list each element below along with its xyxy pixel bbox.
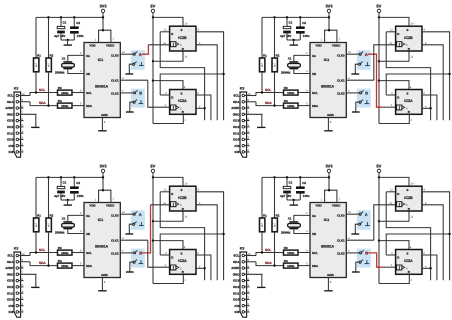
capacitor C2 (quadrant 2) (299, 17, 301, 26)
K3 pin 9 SDA (quadrant 2) (242, 101, 245, 104)
svg-text:4µ7 16V: 4µ7 16V (280, 34, 291, 38)
svg-text:VDD: VDD (316, 44, 322, 48)
K3 pin 10 SCL (quadrant 3) (16, 254, 19, 257)
svg-text:SDA: SDA (312, 264, 319, 268)
svg-text:CLK0: CLK0 (111, 213, 119, 217)
svg-text:IC2A: IC2A (404, 99, 413, 103)
wire IC2B Q pin 9 (quadrant 1) (196, 32, 224, 120)
wire jumper B ground option to ground (quadrant 2) (356, 102, 359, 111)
svg-text:25MHz: 25MHz (55, 230, 65, 234)
flip-flop IC2A (quadrant 4) (396, 250, 422, 275)
svg-text:C2: C2 (76, 21, 80, 25)
svg-text:S: S (407, 251, 409, 255)
wire 5V to IC2B S pin 10 (quadrant 1) (153, 17, 183, 26)
svg-text:IC2A: IC2A (178, 99, 187, 103)
svg-text:R2: R2 (276, 213, 280, 217)
K3 pin 5 IO12 (quadrant 3) (16, 286, 19, 289)
capacitor C1 (quadrant 2) (286, 17, 288, 26)
ground jumper B (quadrant 2) (352, 111, 360, 113)
svg-text:IO11: IO11 (7, 131, 14, 135)
jumper option highlight B (quadrant 2) (357, 89, 371, 108)
wire IC2B R pin 13 to 5V (quadrant 4) (379, 211, 409, 221)
svg-text:K3: K3 (14, 247, 19, 251)
flip-flop IC2A (quadrant 3) (170, 250, 196, 275)
svg-text:100Ω: 100Ω (61, 104, 69, 108)
capacitor C2 (quadrant 1) (73, 17, 75, 26)
svg-text:R4: R4 (58, 99, 62, 103)
svg-text:R1: R1 (37, 213, 41, 217)
wire IC2A Qbar to IC2B D feedback (quadrant 4) (386, 192, 430, 280)
ground K3 (quadrant 3) (31, 286, 39, 288)
svg-text:3V3: 3V3 (99, 163, 107, 168)
svg-text:A: A (139, 212, 142, 217)
capacitor C2 (quadrant 4) (299, 177, 301, 186)
solder jumper B (quadrant 2) (360, 92, 362, 94)
wire decoupling ground link (quadrant 3) (61, 199, 74, 201)
solder jumper A (quadrant 1) (133, 53, 135, 55)
wire jumper A ground option to ground (quadrant 4) (355, 224, 358, 233)
svg-text:C1: C1 (63, 181, 67, 185)
wire IC2A Qbar pin 6 (quadrant 3) (196, 267, 205, 269)
svg-text:R3: R3 (58, 246, 62, 250)
wire XA to crystal (quadrant 1) (68, 55, 84, 61)
svg-text:D: D (397, 95, 399, 99)
wire jumper B ground option to ground (quadrant 4) (356, 262, 359, 271)
svg-text:R2: R2 (276, 53, 280, 57)
svg-text:R1: R1 (263, 53, 267, 57)
solder jumper A ground option (quadrant 4) (359, 223, 361, 225)
jumper option highlight B (quadrant 3) (131, 249, 145, 268)
solder jumper B (quadrant 4) (360, 252, 362, 254)
wire to IC2A clock pin 3 (quadrant 2) (383, 106, 396, 108)
svg-text:X1: X1 (288, 57, 292, 61)
resistor R4 (quadrant 1) (58, 103, 73, 108)
wire selected clock path B to IC2B red (quadrant 3) (142, 205, 150, 253)
svg-text:4k7: 4k7 (35, 222, 38, 227)
wire IC2A S pin 4 to 5V (quadrant 2) (379, 81, 409, 90)
wire jumper B ground option to ground (quadrant 3) (130, 262, 133, 271)
svg-text:AREF: AREF (5, 106, 13, 110)
svg-text:S: S (407, 91, 409, 95)
wire 3V3 feed (quadrant 4) (328, 172, 330, 190)
jumper option highlight A (quadrant 1) (131, 50, 145, 70)
resistor R1 (quadrant 4) (261, 177, 263, 218)
svg-text:5V: 5V (376, 163, 381, 168)
K3 pin 3 IO10 (quadrant 4) (242, 298, 245, 301)
K3 pin 3 IO10 (quadrant 3) (16, 298, 19, 301)
svg-text:IO8: IO8 (235, 150, 240, 154)
svg-text:IO8: IO8 (235, 310, 240, 314)
wire 3V3 feed (quadrant 3) (102, 172, 104, 190)
svg-text:CLK1: CLK1 (337, 79, 345, 83)
solder jumper B (quadrant 1) (134, 92, 136, 94)
svg-text:R3: R3 (58, 86, 62, 90)
wire VDD/VDDO bracket (quadrant 3) (99, 190, 111, 202)
wire IC2B Q pin 9 (quadrant 2) (422, 32, 450, 120)
svg-text:SDA: SDA (312, 104, 319, 108)
resistor R2 (quadrant 2) (274, 17, 276, 58)
wire IC2B Q pin 9 (quadrant 3) (196, 192, 224, 280)
svg-text:SI5351A: SI5351A (95, 244, 109, 248)
svg-text:D: D (171, 32, 173, 36)
svg-text:C1: C1 (289, 21, 293, 25)
wire VDD/VDDO bracket (quadrant 2) (325, 30, 337, 42)
svg-text:S: S (407, 188, 409, 192)
ground IC1 (quadrant 3) (98, 290, 106, 292)
wire IC2A R pin 1 to 5V (quadrant 3) (153, 275, 183, 284)
K3 pin 1 IO8 (quadrant 2) (242, 151, 245, 154)
svg-text:IO13: IO13 (233, 119, 240, 123)
svg-text:R1: R1 (37, 53, 41, 57)
K3 pin 8 AREF (quadrant 2) (242, 107, 245, 110)
wire IC2A Q pin 5 (quadrant 2) (422, 95, 437, 120)
svg-text:IO8: IO8 (9, 150, 14, 154)
K3 pin 6 IO13 (quadrant 1) (16, 119, 19, 122)
svg-text:10: 10 (22, 253, 25, 256)
svg-text:GND: GND (101, 273, 107, 277)
wire VDD/VDDO bracket (quadrant 1) (99, 30, 111, 42)
svg-text:K3: K3 (14, 87, 19, 91)
wire IC1 GND pin 8 (quadrant 1) (101, 118, 103, 131)
solder jumper B ground option (quadrant 1) (133, 101, 135, 103)
wire IC2A Qbar to IC2B D feedback (quadrant 3) (160, 192, 204, 280)
svg-text:C2: C2 (76, 181, 80, 185)
IC U1 Si5351A clock generator IC1 (quadrant 2) (310, 43, 346, 118)
svg-text:SCL: SCL (7, 254, 13, 258)
wire XA to crystal (quadrant 2) (294, 55, 310, 61)
svg-text:100n: 100n (77, 34, 84, 38)
wire SDA net (quadrant 4) (256, 262, 284, 266)
svg-text:10: 10 (248, 253, 251, 256)
svg-text:SDA: SDA (265, 261, 272, 265)
wire decoupling ground link (quadrant 2) (287, 39, 300, 41)
wire K3 GND (quadrant 4) (261, 274, 263, 287)
IC U1 Si5351A clock generator IC1 (quadrant 4) (310, 203, 346, 278)
svg-text:SI5351A: SI5351A (95, 84, 109, 88)
svg-text:100Ω: 100Ω (287, 264, 295, 268)
wire IC1 CLK0 pin 10 stub (quadrant 3) (120, 213, 133, 215)
svg-text:IO9: IO9 (9, 144, 14, 148)
svg-text:D: D (171, 192, 173, 196)
flip-flop IC2A (quadrant 2) (396, 90, 422, 115)
K3 pin 10 SCL (quadrant 2) (242, 94, 245, 97)
wire 3V3 feed (quadrant 1) (102, 12, 104, 30)
wire IC2B R pin 13 to 5V (quadrant 2) (379, 51, 409, 61)
wire IC2A Qbar pin 6 (quadrant 4) (422, 267, 431, 269)
K3 pin 7 GND (quadrant 2) (242, 113, 245, 116)
svg-text:S: S (181, 28, 183, 32)
svg-text:IO12: IO12 (233, 285, 240, 289)
K3 pin 1 IO8 (quadrant 3) (16, 311, 19, 314)
svg-text:4µ7 16V: 4µ7 16V (280, 194, 291, 198)
wire 3V3 rail (quadrant 4) (262, 176, 329, 178)
svg-text:K3: K3 (240, 247, 245, 251)
resistor R2 (quadrant 1) (48, 17, 50, 58)
svg-text:XB: XB (312, 72, 316, 76)
svg-text:4µ7 16V: 4µ7 16V (54, 194, 65, 198)
K3 pin 10 SCL (quadrant 4) (242, 254, 245, 257)
jumper option highlight A (quadrant 3) (131, 210, 145, 230)
K3 pin 5 IO12 (quadrant 2) (242, 126, 245, 129)
svg-text:4k7: 4k7 (273, 62, 276, 67)
svg-text:IO8: IO8 (9, 310, 14, 314)
svg-text:AREF: AREF (5, 266, 13, 270)
svg-text:C: C (406, 204, 408, 207)
svg-text:VDDO: VDDO (332, 44, 341, 48)
svg-text:K3: K3 (240, 87, 245, 91)
solder jumper A (quadrant 3) (133, 213, 135, 215)
wire IC2A Qbar pin 6 (quadrant 2) (422, 107, 431, 109)
capacitor C1 (quadrant 4) (286, 177, 288, 186)
wire IC1 CLK0 pin 10 stub (quadrant 4) (346, 213, 359, 215)
svg-text:B: B (139, 91, 142, 96)
svg-text:IC2A: IC2A (404, 259, 413, 263)
resistor R4 (quadrant 4) (284, 263, 299, 268)
wire 5V vertical feed (quadrant 3) (152, 172, 154, 283)
svg-text:D: D (171, 95, 173, 99)
K3 pin 9 SDA (quadrant 1) (16, 101, 19, 104)
flip-flop IC2B (quadrant 3) (170, 186, 196, 211)
K3 pin 1 IO8 (quadrant 4) (242, 311, 245, 314)
wire IC1 GND pin 8 (quadrant 4) (327, 278, 329, 291)
IC U1 Si5351A clock generator IC1 (quadrant 3) (84, 203, 120, 278)
resistor R1 (quadrant 1) (35, 17, 37, 58)
resistor R3 (quadrant 2) (284, 90, 299, 95)
K3 pin 9 SDA (quadrant 4) (242, 261, 245, 264)
ground K3 (quadrant 2) (257, 126, 265, 128)
wire IC1 GND pin 8 (quadrant 2) (327, 118, 329, 131)
wire IC1 CLK1 pin 9 stub (quadrant 1) (120, 79, 148, 81)
wire IC2B Q to IC2A D feedback (quadrant 1) (160, 74, 223, 95)
wire jumper A ground option to ground (quadrant 3) (129, 224, 132, 233)
jumper option highlight B (quadrant 4) (357, 249, 371, 268)
jumper option highlight A (quadrant 4) (357, 210, 371, 230)
wire CLK1 to IC2A clock pin 3 (quadrant 1) (148, 80, 170, 107)
svg-text:SCL: SCL (39, 248, 45, 252)
svg-text:S: S (181, 188, 183, 192)
solder jumper A ground option (quadrant 1) (133, 63, 135, 65)
svg-text:C2: C2 (302, 181, 306, 185)
svg-text:GND: GND (327, 113, 333, 117)
K3 pin 10 SCL (quadrant 1) (16, 94, 19, 97)
svg-text:D: D (397, 32, 399, 36)
ground K3 (quadrant 1) (31, 126, 39, 128)
svg-text:R4: R4 (58, 259, 62, 263)
wire SDA net (quadrant 3) (30, 262, 58, 266)
wire VDD/VDDO bracket (quadrant 4) (325, 190, 337, 202)
wire SCL net (quadrant 3) (30, 253, 58, 256)
jumper option highlight B (quadrant 1) (131, 89, 145, 108)
ground IC1 (quadrant 1) (98, 130, 106, 132)
svg-text:XB: XB (86, 232, 90, 236)
svg-text:VDD: VDD (316, 204, 322, 208)
svg-text:C: C (180, 44, 182, 47)
svg-text:IO11: IO11 (7, 291, 14, 295)
K3 pin 7 GND (quadrant 4) (242, 273, 245, 276)
wire IC2B Qbar pin 8 (quadrant 3) (196, 205, 217, 280)
svg-text:SDA: SDA (86, 104, 93, 108)
svg-text:CLK1: CLK1 (111, 239, 119, 243)
svg-text:IC1: IC1 (324, 58, 330, 62)
svg-text:SDA: SDA (39, 261, 46, 265)
svg-text:GND: GND (101, 113, 107, 117)
wire IC2A D pin 2 stub (quadrant 3) (160, 254, 169, 256)
svg-text:SCL: SCL (312, 251, 318, 255)
wire to IC2A clock pin 3 (quadrant 4) (383, 266, 396, 268)
svg-text:C: C (180, 267, 182, 270)
svg-text:SI5351A: SI5351A (321, 244, 335, 248)
svg-text:S: S (181, 251, 183, 255)
K3 pin 2 IO9 (quadrant 1) (16, 144, 19, 147)
ground IC1 (quadrant 2) (324, 130, 332, 132)
K3 pin 2 IO9 (quadrant 4) (242, 304, 245, 307)
svg-text:X1: X1 (288, 217, 292, 221)
svg-text:R3: R3 (284, 86, 288, 90)
svg-text:CLK0: CLK0 (111, 53, 119, 57)
wire 3V3 rail (quadrant 1) (36, 16, 103, 18)
ground jumper A (quadrant 4) (351, 233, 359, 235)
K3 pin 5 IO12 (quadrant 1) (16, 126, 19, 129)
wire IC2A Q pin 5 (quadrant 4) (422, 255, 437, 280)
wire IC2A S pin 4 to 5V (quadrant 3) (153, 241, 183, 250)
svg-text:X1: X1 (62, 217, 66, 221)
svg-text:SCL: SCL (233, 254, 239, 258)
svg-text:SI5351A: SI5351A (321, 84, 335, 88)
svg-text:5V: 5V (150, 3, 155, 8)
svg-text:5V: 5V (376, 3, 381, 8)
svg-text:GND: GND (233, 112, 241, 116)
svg-text:SCL: SCL (312, 91, 318, 95)
svg-text:IC1: IC1 (98, 58, 104, 62)
svg-text:IO9: IO9 (235, 304, 240, 308)
wire crystal to XB (quadrant 3) (68, 229, 84, 233)
wire IC2B Q pin 9 (quadrant 4) (422, 192, 450, 280)
svg-text:AREF: AREF (231, 106, 239, 110)
K3 pin 1 IO8 (quadrant 1) (16, 151, 19, 154)
ground jumper A (quadrant 1) (125, 73, 133, 75)
wire IC2B D pin 12 stub (quadrant 3) (160, 191, 169, 193)
svg-text:10: 10 (22, 93, 25, 96)
svg-text:CLK0: CLK0 (337, 213, 345, 217)
svg-text:SDA: SDA (7, 260, 14, 264)
svg-text:IC2B: IC2B (404, 196, 413, 200)
svg-text:IC2A: IC2A (178, 259, 187, 263)
svg-text:100n: 100n (303, 194, 310, 198)
svg-text:IC1: IC1 (98, 218, 104, 222)
wire selected clock path A to IC2B red (quadrant 1) (142, 45, 149, 54)
svg-text:D: D (397, 192, 399, 196)
svg-text:IO11: IO11 (233, 131, 240, 135)
solder jumper B ground option (quadrant 3) (133, 261, 135, 263)
svg-text:R4: R4 (284, 259, 288, 263)
K3 pin 4 IO11 (quadrant 4) (242, 292, 245, 295)
wire K3 GND (quadrant 2) (261, 114, 263, 127)
svg-text:X1: X1 (62, 57, 66, 61)
flip-flop IC2B (quadrant 4) (396, 186, 422, 211)
wire decoupling ground link (quadrant 1) (61, 39, 74, 41)
svg-text:C: C (180, 204, 182, 207)
ground jumper B (quadrant 3) (126, 271, 134, 273)
svg-text:SDA: SDA (86, 264, 93, 268)
wire IC1 CLK2 pin 6 stub (quadrant 4) (346, 252, 359, 254)
ground jumper A (quadrant 3) (125, 233, 133, 235)
wire IC2A Qbar to IC2B D feedback (quadrant 2) (386, 32, 430, 120)
wire IC2B Q to IC2A D feedback (quadrant 4) (386, 234, 449, 255)
svg-text:VDD: VDD (90, 44, 96, 48)
svg-text:A: A (365, 52, 368, 57)
svg-text:5V: 5V (150, 163, 155, 168)
ground below C1 C2 (quadrant 3) (64, 204, 72, 206)
jumper option highlight A (quadrant 2) (357, 50, 371, 70)
svg-text:100Ω: 100Ω (61, 91, 69, 95)
wire CLK1 to IC2B clock pin 11 (quadrant 2) (374, 45, 396, 80)
capacitor C1 (quadrant 1) (60, 17, 62, 26)
svg-text:GND: GND (327, 273, 333, 277)
wire IC1 CLK2 pin 6 stub (quadrant 3) (120, 252, 133, 254)
wire IC2A D pin 2 stub (quadrant 4) (386, 254, 395, 256)
wire IC2A R pin 1 to 5V (quadrant 1) (153, 115, 183, 124)
solder jumper B ground option (quadrant 4) (359, 261, 361, 263)
wire 5V to IC2B S pin 10 (quadrant 3) (153, 177, 183, 186)
wire IC2A Qbar to IC2B D feedback (quadrant 1) (160, 32, 204, 120)
svg-text:4k7: 4k7 (35, 62, 38, 67)
svg-text:SCL: SCL (86, 251, 92, 255)
svg-text:AREF: AREF (231, 266, 239, 270)
svg-text:C1: C1 (63, 21, 67, 25)
svg-text:IC2B: IC2B (404, 36, 413, 40)
wire IC2B D pin 12 stub (quadrant 4) (386, 191, 395, 193)
svg-text:CLK1: CLK1 (337, 239, 345, 243)
K3 pin 4 IO11 (quadrant 1) (16, 132, 19, 135)
svg-text:100Ω: 100Ω (287, 91, 295, 95)
wire IC2A S pin 4 to 5V (quadrant 4) (379, 241, 409, 250)
svg-text:SCL: SCL (265, 248, 271, 252)
wire XA to crystal (quadrant 4) (294, 215, 310, 221)
ground below C1 C2 (quadrant 1) (64, 44, 72, 46)
crystal X1 (quadrant 2) (289, 61, 298, 63)
wire XA to crystal (quadrant 3) (68, 215, 84, 221)
wire IC2B Q to IC2A D feedback (quadrant 3) (160, 234, 223, 255)
crystal X1 (quadrant 3) (63, 221, 72, 223)
ground jumper A (quadrant 2) (351, 73, 359, 75)
svg-text:100Ω: 100Ω (287, 251, 295, 255)
svg-text:100n: 100n (303, 34, 310, 38)
wire decoupling ground link (quadrant 4) (287, 199, 300, 201)
K3 pin 6 IO13 (quadrant 2) (242, 119, 245, 122)
svg-text:3V3: 3V3 (325, 3, 333, 8)
svg-text:IO13: IO13 (7, 279, 14, 283)
wire IC2B Qbar pin 8 (quadrant 4) (422, 205, 443, 280)
svg-text:C2: C2 (302, 21, 306, 25)
wire IC2A D pin 2 stub (quadrant 1) (160, 94, 169, 96)
wire IC1 CLK1 pin 9 stub (quadrant 2) (346, 79, 374, 81)
svg-text:100Ω: 100Ω (61, 251, 69, 255)
svg-text:SCL: SCL (86, 91, 92, 95)
svg-text:25MHz: 25MHz (55, 70, 65, 74)
wire 3V3 rail (quadrant 2) (262, 16, 329, 18)
svg-text:D: D (397, 255, 399, 259)
wire IC2B Q to IC2A D feedback (quadrant 2) (386, 74, 449, 95)
K3 pin 4 IO11 (quadrant 3) (16, 292, 19, 295)
wire IC2B R pin 13 to 5V (quadrant 1) (153, 51, 183, 61)
solder jumper A (quadrant 4) (359, 213, 361, 215)
crystal X1 (quadrant 1) (63, 61, 72, 63)
svg-text:A: A (365, 212, 368, 217)
svg-text:SDA: SDA (265, 101, 272, 105)
resistor R3 (quadrant 3) (58, 250, 73, 255)
svg-text:SDA: SDA (233, 260, 240, 264)
ground below C1 C2 (quadrant 4) (290, 204, 298, 206)
